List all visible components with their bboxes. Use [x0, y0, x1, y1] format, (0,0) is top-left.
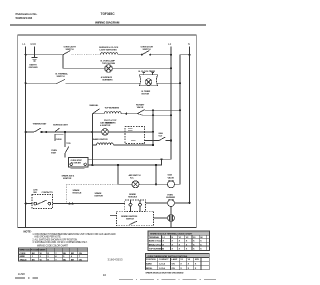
header rule — [10, 24, 206, 26]
label gas valve B — [168, 174, 175, 180]
svg-text:SPARK MODULE TERMINAL USAGE CH: SPARK MODULE TERMINAL USAGE CHART — [150, 233, 193, 236]
tick below thermostat box — [71, 167, 85, 169]
flame switch hatched circle — [168, 215, 175, 222]
wire to L2 dot — [165, 140, 171, 142]
svg-text:MOTOR: MOTOR — [142, 93, 150, 95]
terminals spark module — [129, 200, 141, 206]
svg-text:IGNITOR: IGNITOR — [95, 196, 104, 198]
wire N branch horizontal — [180, 54, 190, 56]
svg-text:VLV: VLV — [158, 135, 162, 137]
switch surface unit — [55, 128, 60, 132]
box door lite switch dashed — [32, 195, 53, 209]
lamp spark ignitor A — [132, 181, 139, 188]
wire L2 bus — [170, 47, 172, 160]
svg-text:TWO SHOWN: TWO SHOWN — [102, 63, 116, 65]
wire row5 from L1 — [26, 131, 35, 133]
svg-text:B. THERMAL: B. THERMAL — [56, 72, 69, 75]
svg-text:V1: V1 — [180, 259, 183, 261]
svg-text:MANUAL: MANUAL — [90, 104, 100, 107]
node junction throw B at x153 — [152, 114, 154, 116]
svg-text:& IGNITOR: & IGNITOR — [100, 125, 111, 127]
wire row8 right — [146, 202, 168, 204]
svg-text:GN: GN — [79, 260, 83, 262]
switch oven tstat — [65, 147, 69, 154]
wire row4b — [121, 113, 137, 115]
wire N bus — [189, 47, 191, 203]
node junction circle row x153 — [152, 131, 154, 133]
wire row2 to L2 — [112, 67, 171, 69]
wire bake row — [92, 144, 96, 146]
node junction x156 at row7 — [155, 183, 157, 185]
wire selector throw A to N branch — [145, 109, 180, 111]
node junction row8 at N — [189, 202, 191, 204]
node junction row1 at L1 — [25, 54, 27, 56]
svg-text:GN: GN — [79, 253, 83, 255]
node junction throw A N branch — [179, 109, 181, 111]
node junction row3 at L1 — [25, 82, 27, 84]
ground label — [29, 64, 39, 70]
node junction row5 at x92 — [91, 131, 93, 133]
svg-text:GAS: GAS — [168, 174, 173, 177]
svg-text:AND GROUND PER NOTE.: AND GROUND PER NOTE. — [34, 236, 61, 239]
svg-text:N: N — [188, 42, 190, 46]
box spark ignition module B dashed — [116, 211, 153, 226]
wire selector throw B to L2 — [137, 114, 171, 116]
wire valve chain vertical — [170, 207, 172, 228]
svg-text:VALVE: VALVE — [168, 176, 175, 179]
svg-text:EARTH: EARTH — [30, 64, 37, 67]
svg-text:BROIL: BROIL — [146, 268, 153, 270]
node junction bake row — [152, 144, 154, 146]
svg-text:BURNER: BURNER — [166, 197, 175, 199]
publication number block — [16, 12, 38, 20]
node junction row4 — [125, 113, 127, 115]
svg-text:TERMINAL: TERMINAL — [149, 236, 160, 239]
svg-text:SPK: SPK — [195, 259, 200, 261]
node junction row8 small b — [72, 203, 74, 205]
switch gas valve — [159, 137, 165, 141]
svg-text:POSITION: POSITION — [146, 259, 156, 261]
node junction row8 at L1 — [25, 203, 27, 205]
wire N branch vertical — [179, 55, 181, 185]
wire row5 — [41, 131, 93, 133]
label lite switch — [33, 190, 53, 195]
svg-text:TRACE: TRACE — [20, 259, 28, 262]
node junction row1 at L2 — [170, 54, 172, 56]
node junction x92 at out B — [91, 164, 93, 166]
wire x118 drop to row7 — [117, 165, 119, 184]
switch thermostat — [34, 128, 41, 132]
wire row4 — [92, 113, 104, 115]
resistor broil ignitor — [104, 112, 121, 114]
svg-text:BAKE CYCLE: BAKE CYCLE — [149, 240, 163, 243]
box spark module A dashed — [125, 200, 146, 212]
wire light switch drop — [62, 55, 64, 69]
svg-text:316043553: 316043553 — [108, 258, 124, 262]
svg-text:SPARK IGNITION: SPARK IGNITION — [121, 215, 138, 218]
box oven thermostat — [68, 158, 88, 168]
label oven ignitor — [100, 121, 112, 127]
svg-text:BURNERS: BURNERS — [103, 80, 114, 82]
svg-text:TGF365C: TGF365C — [101, 12, 116, 16]
node junction out B join — [160, 158, 162, 160]
wire row3 right to N branch — [158, 82, 181, 84]
svg-text:GROUND: GROUND — [29, 67, 39, 69]
svg-text:TOD: TOD — [66, 143, 71, 145]
lamp oven lamp — [105, 65, 113, 73]
svg-text:STAT: STAT — [51, 151, 57, 154]
svg-text:OVEN THERMOSTAT SWITCH POSITIO: OVEN THERMOSTAT SWITCH POSITIONS — [148, 255, 188, 258]
svg-text:MODULE: MODULE — [128, 197, 137, 199]
wire bake row 2 — [113, 144, 153, 146]
svg-text:OVEN: OVEN — [56, 139, 62, 141]
fold line right segments — [119, 278, 216, 280]
node junction row8 small a — [69, 203, 71, 205]
motor gas valve B — [168, 180, 175, 188]
svg-text:L1: L1 — [22, 42, 26, 46]
label oven lamp — [101, 60, 116, 66]
svg-text:WIRING CODE COLOR CHART: WIRING CODE COLOR CHART — [37, 245, 69, 248]
svg-text:LIGHT SWITCHES: LIGHT SWITCHES — [100, 49, 118, 51]
wire row1 to door switch — [118, 54, 142, 56]
node junction row2 at L2 — [170, 67, 172, 69]
resistor surface ignitor switch heater — [101, 53, 118, 55]
svg-text:4 SURFACE: 4 SURFACE — [101, 76, 113, 79]
svg-text:SWITCH: SWITCH — [143, 49, 151, 51]
fold line left segment — [15, 277, 38, 279]
wire GND stub — [34, 47, 36, 58]
svg-text:SURFACE UNIT: SURFACE UNIT — [53, 123, 69, 126]
label spark module above — [128, 193, 137, 199]
wire row8 from L1 — [26, 203, 33, 205]
wire row5 to ignitor — [92, 131, 101, 133]
label hot surface — [129, 174, 141, 179]
label surface burners — [101, 76, 113, 82]
svg-text:WIRE COLOR CODE IDENT.: WIRE COLOR CODE IDENT. — [20, 250, 47, 252]
component table right 1 — [148, 231, 210, 251]
svg-text:GAS VALVE: GAS VALVE — [100, 121, 112, 124]
node junction row5 at L1 — [25, 131, 27, 133]
svg-text:L2: L2 — [168, 42, 172, 46]
svg-text:SWITCH: SWITCH — [126, 218, 134, 220]
component table right 2 — [145, 254, 209, 270]
label oven door switch — [141, 47, 154, 52]
label surface switch — [99, 46, 119, 52]
svg-text:IGNITOR: IGNITOR — [63, 178, 72, 180]
svg-text:SPARK: SPARK — [95, 192, 102, 195]
node junction throw B at L2 — [170, 114, 172, 116]
wire stub into box B — [110, 215, 116, 217]
wire tstat out A to L2 — [88, 158, 171, 160]
svg-text:SW.: SW. — [33, 192, 37, 194]
label oven tstat — [51, 150, 57, 155]
wire tstat drop 2 — [64, 153, 66, 157]
wire row3 from L1 — [26, 82, 57, 84]
stub box A to box B right — [139, 206, 141, 212]
wire x92 vertical — [91, 114, 93, 165]
switch oven door — [141, 51, 151, 56]
svg-text:1-2 3-4: 1-2 3-4 — [159, 263, 166, 266]
svg-text:ROTARY: ROTARY — [136, 104, 145, 107]
wire box M to gas valve switch — [145, 140, 160, 142]
svg-text:ON: ON — [172, 264, 176, 266]
svg-text:SWITCH: SWITCH — [66, 49, 74, 51]
wire row3 mid — [66, 82, 140, 84]
wiring code table — [19, 248, 88, 262]
svg-text:GND: GND — [30, 42, 36, 46]
label timer motor — [142, 91, 151, 96]
svg-text:SPARK: SPARK — [73, 189, 80, 192]
svg-text:SPARK MODULE MUST BE GROUNDED: SPARK MODULE MUST BE GROUNDED — [145, 272, 183, 275]
wire row1 to L2 — [150, 54, 171, 56]
motor oven burner valve — [168, 199, 175, 207]
label inside box B — [121, 215, 138, 221]
wire L1 bus — [25, 47, 27, 228]
wire tstat out B — [88, 159, 162, 165]
svg-text:BROIL CYCLE: BROIL CYCLE — [149, 244, 163, 246]
switch inside box B — [130, 221, 138, 224]
note block — [24, 230, 117, 245]
wire x156 drop to row7 — [155, 165, 157, 184]
svg-text:2. ALL SWITCHES SHOWN IN OFF P: 2. ALL SWITCHES SHOWN IN OFF POSITION. — [32, 239, 78, 242]
svg-text:WIRING DIAGRAM: WIRING DIAGRAM — [95, 20, 120, 24]
label rotary valve — [136, 104, 145, 110]
ground symbol — [31, 58, 37, 61]
resistor bake ignitor — [97, 143, 114, 145]
svg-text:SWITCH: SWITCH — [57, 76, 65, 78]
svg-text:ON: ON — [172, 268, 176, 270]
node junction x156 top — [155, 164, 157, 166]
svg-text:BAKE IGNITOR: BAKE IGNITOR — [93, 138, 108, 141]
node junction row5 b — [45, 131, 47, 133]
label console text a — [73, 189, 82, 195]
wire box B to flame switch — [153, 217, 168, 219]
node junction throw A x153 — [152, 109, 154, 111]
svg-text:SPARK: SPARK — [129, 193, 136, 196]
switch thermal — [57, 79, 66, 83]
svg-text:11/98: 11/98 — [18, 272, 25, 276]
svg-text:THERMOSTAT: THERMOSTAT — [33, 123, 47, 126]
wire row8 to N — [174, 202, 189, 204]
svg-text:1-2 5-6: 1-2 5-6 — [159, 268, 166, 270]
svg-text:LAMP: LAMP — [172, 258, 178, 261]
svg-text:1. DISCONNECT POWER BEFORE SER: 1. DISCONNECT POWER BEFORE SERVICING UNI… — [32, 233, 116, 236]
svg-text:10: 10 — [103, 273, 107, 277]
wire row2 to lamp — [63, 67, 107, 69]
wire row1 dashed segment — [72, 54, 101, 56]
schematic border frame — [18, 35, 197, 228]
node junction x118 output B — [117, 164, 119, 166]
wire row1 L1 to light switch — [26, 54, 63, 56]
wire row7 mid — [139, 183, 168, 185]
label oven burner — [166, 194, 175, 199]
lamp oven ignitor — [102, 129, 109, 136]
label oven box — [55, 134, 64, 141]
svg-text:3. SUITABLE FOR A MIN. OF 90 C: 3. SUITABLE FOR A MIN. OF 90 C COPPER WI… — [32, 241, 87, 244]
svg-text:TOP BURNERS: TOP BURNERS — [105, 108, 120, 110]
wire tstat drop — [64, 132, 66, 147]
label thermal switch — [56, 72, 69, 78]
svg-text:SPARK SW &: SPARK SW & — [62, 175, 75, 178]
svg-text:V2: V2 — [188, 259, 191, 261]
wire row8 mid — [53, 203, 125, 205]
svg-text:WIRE: WIRE — [20, 256, 26, 258]
svg-text:N.C.: N.C. — [130, 177, 134, 179]
svg-text:MODULE: MODULE — [73, 192, 82, 194]
node junction row5 c — [64, 131, 66, 133]
wire x153 vertical — [152, 110, 154, 145]
motor clock timer — [140, 73, 158, 86]
switch oven light — [63, 51, 70, 55]
stub box A to box B left — [130, 206, 132, 212]
node junction row5 a — [41, 131, 43, 133]
node junction at L2 y141 — [170, 139, 172, 141]
switch door lite contacts — [34, 200, 51, 205]
wire row7 solid into circle A — [118, 183, 132, 185]
label gas valve — [158, 132, 163, 137]
svg-text:CODE: CODE — [20, 253, 27, 255]
label console text b — [95, 192, 104, 198]
wire row7 dashed corner — [65, 184, 67, 203]
svg-text:CONTACT: CONTACT — [159, 258, 169, 261]
svg-text:CONTACTS: CONTACTS — [42, 191, 54, 194]
svg-text:BAKE: BAKE — [146, 263, 152, 266]
switch manual valve — [92, 109, 99, 114]
label oven light switch — [64, 47, 77, 52]
switch rotary valve — [137, 110, 144, 114]
wire row7 right — [175, 183, 181, 185]
box valve assembly dashed — [125, 126, 145, 143]
wire row5 into box M — [108, 131, 153, 133]
label spark switch — [62, 175, 75, 181]
svg-text:VALVE: VALVE — [137, 106, 144, 109]
node junction clock N branch — [179, 82, 181, 84]
svg-text:5995321403: 5995321403 — [16, 16, 33, 20]
svg-text:TO: BK BR: TO: BK BR — [71, 162, 82, 164]
svg-text:NOTE-: NOTE- — [24, 230, 32, 234]
wire row7 dashed left — [66, 183, 118, 185]
label pilot burners — [104, 120, 117, 125]
node junction N branch — [189, 54, 191, 56]
